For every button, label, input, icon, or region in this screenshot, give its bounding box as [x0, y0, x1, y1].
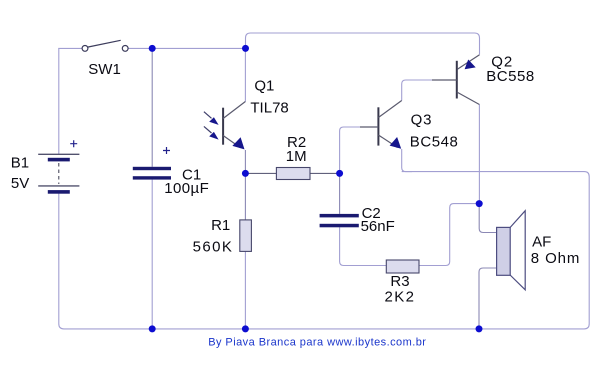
transistor Q2 [432, 55, 480, 105]
svg-text:By Piava Branca para www.ibyte: By Piava Branca para www.ibytes.com.br [208, 337, 426, 349]
svg-text:BC548: BC548 [410, 133, 459, 150]
wire: C2 bottom plate down, right to R3 left lead [340, 227, 386, 265]
resistor R2 [276, 168, 310, 180]
wire: node C down to R1 [244, 173, 246, 220]
wire: Q3 collector lead up and right to Q2 base [402, 80, 457, 101]
svg-text:Q1: Q1 [254, 78, 274, 95]
wire: Q2 collector lead down to node E [478, 105, 480, 204]
svg-text:R1: R1 [211, 217, 230, 234]
speaker AF [497, 211, 526, 290]
wire: R2 right lead to node D [310, 172, 340, 174]
node B junction dot [242, 45, 249, 52]
svg-text:2K2: 2K2 [385, 288, 416, 305]
svg-text:R3: R3 [390, 273, 409, 290]
wire: Q1 emitter lead down to node C [244, 150, 246, 173]
transistor Q3 [360, 101, 402, 149]
svg-text:560K: 560K [193, 238, 234, 255]
wire: R3 right lead up to node E [419, 204, 479, 266]
wire: node D up and right to Q3 base [340, 127, 379, 173]
ground rail junction dot at speaker branch [476, 325, 483, 332]
svg-text:56nF: 56nF [361, 218, 395, 235]
battery B1 [38, 140, 79, 194]
wire: R1 bottom lead down to bottom rail [244, 251, 246, 329]
svg-text:SW1: SW1 [88, 61, 121, 78]
svg-text:100µF: 100µF [164, 180, 209, 197]
capacitor C1 [133, 147, 171, 180]
ground rail junction dot at R1 branch [242, 325, 249, 332]
wire: SW1 right pole to node A and on to node B [128, 47, 246, 49]
wire: left rail from top corner down to battery + terminal [58, 48, 60, 154]
resistor R1 [240, 220, 252, 252]
svg-text:1M: 1M [286, 148, 307, 165]
capacitor C2 [320, 214, 359, 227]
svg-text:Q3: Q3 [411, 112, 433, 129]
resistor R3 [386, 260, 419, 273]
node D junction dot [336, 170, 343, 177]
svg-text:5V: 5V [11, 175, 29, 192]
svg-text:B1: B1 [11, 155, 29, 172]
node C junction dot [242, 170, 249, 177]
wire: Q3 emitter lead down to ground line [402, 149, 412, 172]
svg-text:TIL78: TIL78 [250, 100, 288, 117]
node E junction dot [476, 200, 483, 207]
wire: ground loop (left rail below battery, bottom rail, right rail up to Q3 emitter line) [59, 172, 589, 329]
wire: Q1 collector lead up to node B [244, 48, 246, 101]
phototransistor Q1 [204, 102, 246, 150]
wire: node C right to R2 left lead [245, 172, 276, 174]
wire: top wire from left corner to SW1 left pole [59, 47, 82, 50]
svg-text:AF: AF [532, 233, 551, 250]
wire: speaker bottom terminal left and down to bottom rail [479, 268, 496, 329]
wire: node A down to C1 top plate [151, 48, 153, 166]
svg-text:BC558: BC558 [486, 68, 535, 85]
svg-text:8 Ohm: 8 Ohm [531, 250, 581, 267]
switch SW1 [82, 40, 128, 51]
wire: elevated positive rail from node B up and right to Q2 emitter [246, 33, 480, 55]
wire: node D down to C2 top plate [339, 173, 341, 214]
wire: C1 bottom plate down to bottom rail [151, 180, 153, 329]
node A junction dot [149, 45, 156, 52]
ground rail junction dot at C1 branch [149, 325, 156, 332]
wire: node E down and right to speaker top terminal [479, 204, 496, 233]
